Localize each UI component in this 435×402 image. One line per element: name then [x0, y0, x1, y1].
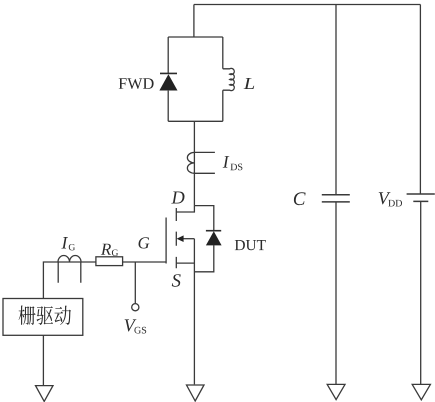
resistor RG [96, 257, 123, 266]
wire rect bottom to drain [193, 121, 195, 205]
wire VGS probe lead [134, 262, 136, 303]
battery VDD plates [407, 194, 435, 201]
label VDD sub [388, 200, 402, 207]
wire top bus [194, 4, 421, 6]
current sensor IG leads [58, 262, 81, 283]
transistor DUT body arrow [177, 235, 184, 242]
transistor DUT channel segments [175, 208, 177, 268]
gate driver box [3, 299, 83, 336]
label IDS I [223, 156, 230, 168]
wire gate lead [123, 261, 167, 263]
label L [244, 78, 255, 89]
label DUT [235, 240, 266, 250]
wire drain top drop [193, 5, 195, 38]
ground G3 C branch [327, 384, 345, 399]
FWD / L loop rectangle [168, 37, 223, 121]
label D [171, 192, 184, 204]
diode DUT cathode bar [206, 230, 221, 232]
label G [139, 237, 150, 248]
label S [172, 274, 181, 287]
current sensor IG loops [58, 256, 81, 263]
label IDS sub [231, 164, 243, 171]
ground G2 source [187, 385, 205, 401]
wire body diode branch top [194, 206, 213, 231]
ground G4 VDD [412, 384, 430, 399]
diode FWD triangle [159, 74, 177, 90]
wire source to ground [193, 239, 195, 385]
inductor L [223, 68, 234, 90]
label IG I [61, 237, 68, 249]
label IG sub [69, 244, 75, 250]
label RG R [101, 244, 111, 255]
label RG sub [112, 250, 118, 256]
label FWD [119, 78, 154, 89]
ground G1 driver [36, 386, 54, 402]
wire driver to ground [42, 335, 44, 385]
current sensor IDS leads [194, 152, 215, 173]
wire C to ground [335, 202, 337, 384]
capacitor C plates [322, 195, 350, 202]
label VDD V [379, 192, 391, 204]
wire VDD to ground [420, 201, 422, 384]
transistor DUT gate bar [165, 218, 167, 264]
transistor DUT body lead [183, 238, 195, 240]
label VGS V [125, 319, 137, 331]
label VGS sub [134, 327, 146, 334]
wire body diode branch bottom [194, 245, 213, 272]
label gate-driver text [19, 306, 36, 325]
wire C branch drop [335, 5, 337, 195]
diode DUT body triangle [206, 231, 222, 245]
diode FWD cathode bar [160, 72, 177, 74]
label C [294, 192, 306, 205]
current sensor IDS loops [187, 152, 194, 173]
terminal VGS circle [132, 304, 139, 311]
transistor DUT source lead [176, 262, 194, 264]
wire drain corner into DUT [176, 206, 194, 212]
wire VDD branch drop [419, 5, 421, 195]
wire RG to driver [43, 262, 96, 299]
